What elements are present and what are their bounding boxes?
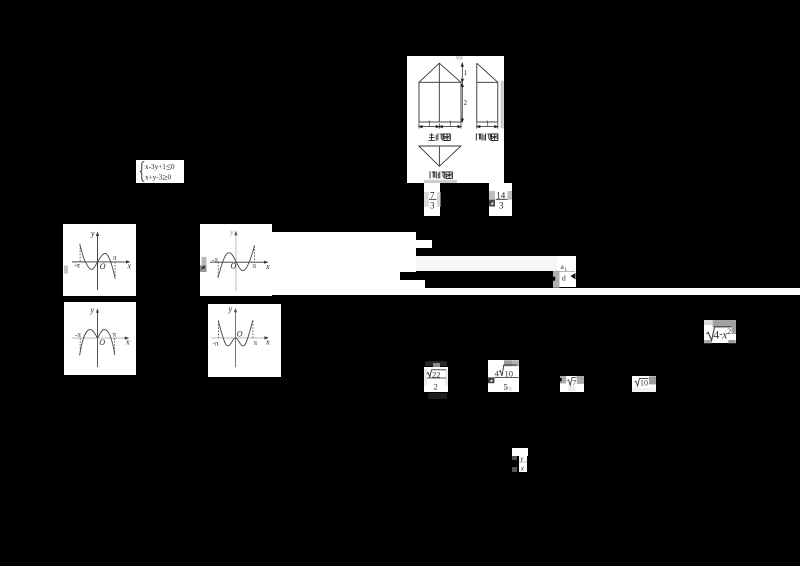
- fraction bar: [496, 198, 508, 201]
- gray L-shaped block: [713, 320, 737, 334]
- svg-text:x-3y+1≤0: x-3y+1≤0: [145, 163, 175, 173]
- a1/d fraction patch: [557, 256, 576, 288]
- svg-text:7: 7: [430, 190, 435, 200]
- dashed at -pi: [79, 244, 81, 261]
- black cut in band: [400, 272, 425, 281]
- svg-text:x: x: [265, 262, 270, 271]
- svg-text:7: 7: [572, 379, 576, 388]
- side view roof triangle: [477, 63, 498, 82]
- long white strip: [272, 288, 800, 296]
- small white below cut: [416, 280, 425, 288]
- front view center line: [438, 63, 440, 122]
- svg-text:x: x: [520, 465, 525, 473]
- three-view drawing: [407, 56, 504, 183]
- svg-text:2: 2: [727, 327, 731, 336]
- dashed at pi: [252, 321, 254, 338]
- x axis (faded): [211, 337, 266, 339]
- dark mark: [571, 273, 576, 280]
- svg-text:x+y-3≥0: x+y-3≥0: [145, 173, 171, 183]
- svg-text:-π: -π: [74, 261, 80, 269]
- sqrt10 patch: [632, 376, 656, 392]
- gray bottom strip: [424, 180, 457, 183]
- dimension number labels: [428, 69, 490, 128]
- dashed at pi: [254, 246, 256, 262]
- svg-text:π: π: [254, 339, 258, 347]
- y axis: [72, 233, 129, 290]
- inequality system patch: [136, 160, 184, 183]
- sqrt 22: [427, 369, 446, 376]
- bar: [519, 461, 528, 464]
- graph option A patch: [63, 224, 136, 296]
- curve C (M shape): [80, 330, 115, 356]
- svg-text:1: 1: [449, 120, 453, 128]
- x axis (faded): [72, 337, 128, 339]
- svg-text:y: y: [519, 455, 524, 463]
- svg-text:5: 5: [504, 382, 508, 392]
- y axis: [235, 310, 237, 368]
- svg-text:-π: -π: [213, 340, 219, 348]
- sqrt 7: [567, 378, 576, 386]
- gray top sliver: [456, 56, 463, 60]
- black nub: [552, 276, 555, 280]
- gray right sliver: [501, 81, 504, 129]
- selection handle: [488, 377, 494, 383]
- svg-text:-π: -π: [75, 331, 81, 339]
- gray block: [553, 270, 560, 287]
- fraction bar: [429, 198, 437, 201]
- labels: [75, 306, 130, 347]
- sqrt22/2 patch: [425, 361, 447, 366]
- dashed at -pi: [217, 321, 219, 338]
- svg-text:π: π: [113, 331, 117, 339]
- graph option B patch: [200, 224, 272, 296]
- curly brace: [140, 162, 144, 182]
- svg-text:x: x: [265, 338, 270, 347]
- svg-text:y: y: [90, 306, 95, 315]
- dim body height 2: [461, 84, 463, 123]
- svg-text:4: 4: [495, 369, 500, 379]
- bright white band right of option B: [272, 232, 416, 295]
- dim roof height 1: [462, 63, 463, 82]
- fraction 14/3 patch: [489, 183, 512, 216]
- gray sliver left edge: [64, 265, 68, 273]
- side view rect: [477, 82, 498, 122]
- graph option C patch: [64, 302, 136, 375]
- svg-text:O: O: [99, 338, 105, 347]
- svg-text:x: x: [125, 338, 130, 347]
- svg-text:14: 14: [496, 190, 506, 200]
- front bottom dim line: [419, 123, 461, 129]
- svg-text:y: y: [90, 229, 95, 238]
- svg-text:π: π: [113, 254, 117, 262]
- svg-text:O: O: [231, 261, 237, 270]
- svg-text:3: 3: [430, 200, 435, 210]
- y/x fraction patch: [512, 448, 528, 456]
- svg-text:3: 3: [499, 200, 504, 210]
- three-view figure patch: [407, 56, 504, 183]
- front view roof: [419, 63, 461, 82]
- CJK label approximations 侧视图: [476, 133, 498, 140]
- front view square: [419, 82, 461, 122]
- selection handle square: [489, 200, 495, 207]
- sqrt 10: [635, 379, 649, 387]
- svg-text:1: 1: [464, 69, 468, 77]
- fraction 7/3 patch: [424, 183, 441, 216]
- svg-text:2: 2: [464, 99, 468, 107]
- svg-text:-π: -π: [212, 256, 218, 264]
- dashed at -pi: [217, 262, 219, 277]
- dashed at pi: [114, 261, 116, 278]
- top view triangle: [419, 146, 461, 166]
- svg-text:2: 2: [434, 381, 438, 391]
- band nub: [416, 240, 432, 248]
- svg-text:1: 1: [428, 120, 432, 128]
- fraction bar: [494, 376, 518, 379]
- curve B: [218, 245, 255, 278]
- svg-text:d: d: [562, 273, 566, 282]
- labels: [74, 229, 132, 271]
- svg-text:y: y: [229, 227, 234, 236]
- dashed at pi: [114, 338, 116, 354]
- y axis (faded): [235, 232, 237, 291]
- sqrt(4-x^2) patch: [704, 320, 736, 343]
- svg-text:π: π: [253, 262, 257, 270]
- sqrt(4-x^2) expression: [707, 327, 732, 341]
- svg-text:O: O: [100, 261, 106, 270]
- x axis: [210, 261, 267, 263]
- curve A: [80, 243, 115, 278]
- sqrt7 patch: [560, 376, 584, 392]
- svg-text:10: 10: [640, 379, 648, 388]
- svg-text:O: O: [237, 330, 243, 339]
- svg-text:y: y: [228, 305, 233, 314]
- labels: [212, 227, 270, 271]
- CJK label approximations 主视图: [428, 133, 450, 140]
- svg-text:1: 1: [565, 268, 568, 273]
- fraction bar: [427, 376, 446, 379]
- svg-text:1: 1: [486, 120, 490, 128]
- curve D (W shape): [218, 320, 253, 346]
- graph option D patch: [208, 304, 281, 377]
- svg-text:10: 10: [505, 369, 514, 379]
- labels: [213, 305, 271, 348]
- fraction bar: [558, 270, 576, 273]
- 4sqrt10/5 patch: [488, 360, 519, 392]
- y axis: [97, 310, 99, 367]
- B selection marker grey blocks: [202, 256, 207, 265]
- side bottom dim line: [477, 123, 498, 129]
- light band extension: [416, 256, 576, 272]
- CJK label approximations 俯视图: [430, 171, 452, 178]
- dashed at -pi: [79, 338, 81, 352]
- svg-text:x: x: [127, 261, 132, 270]
